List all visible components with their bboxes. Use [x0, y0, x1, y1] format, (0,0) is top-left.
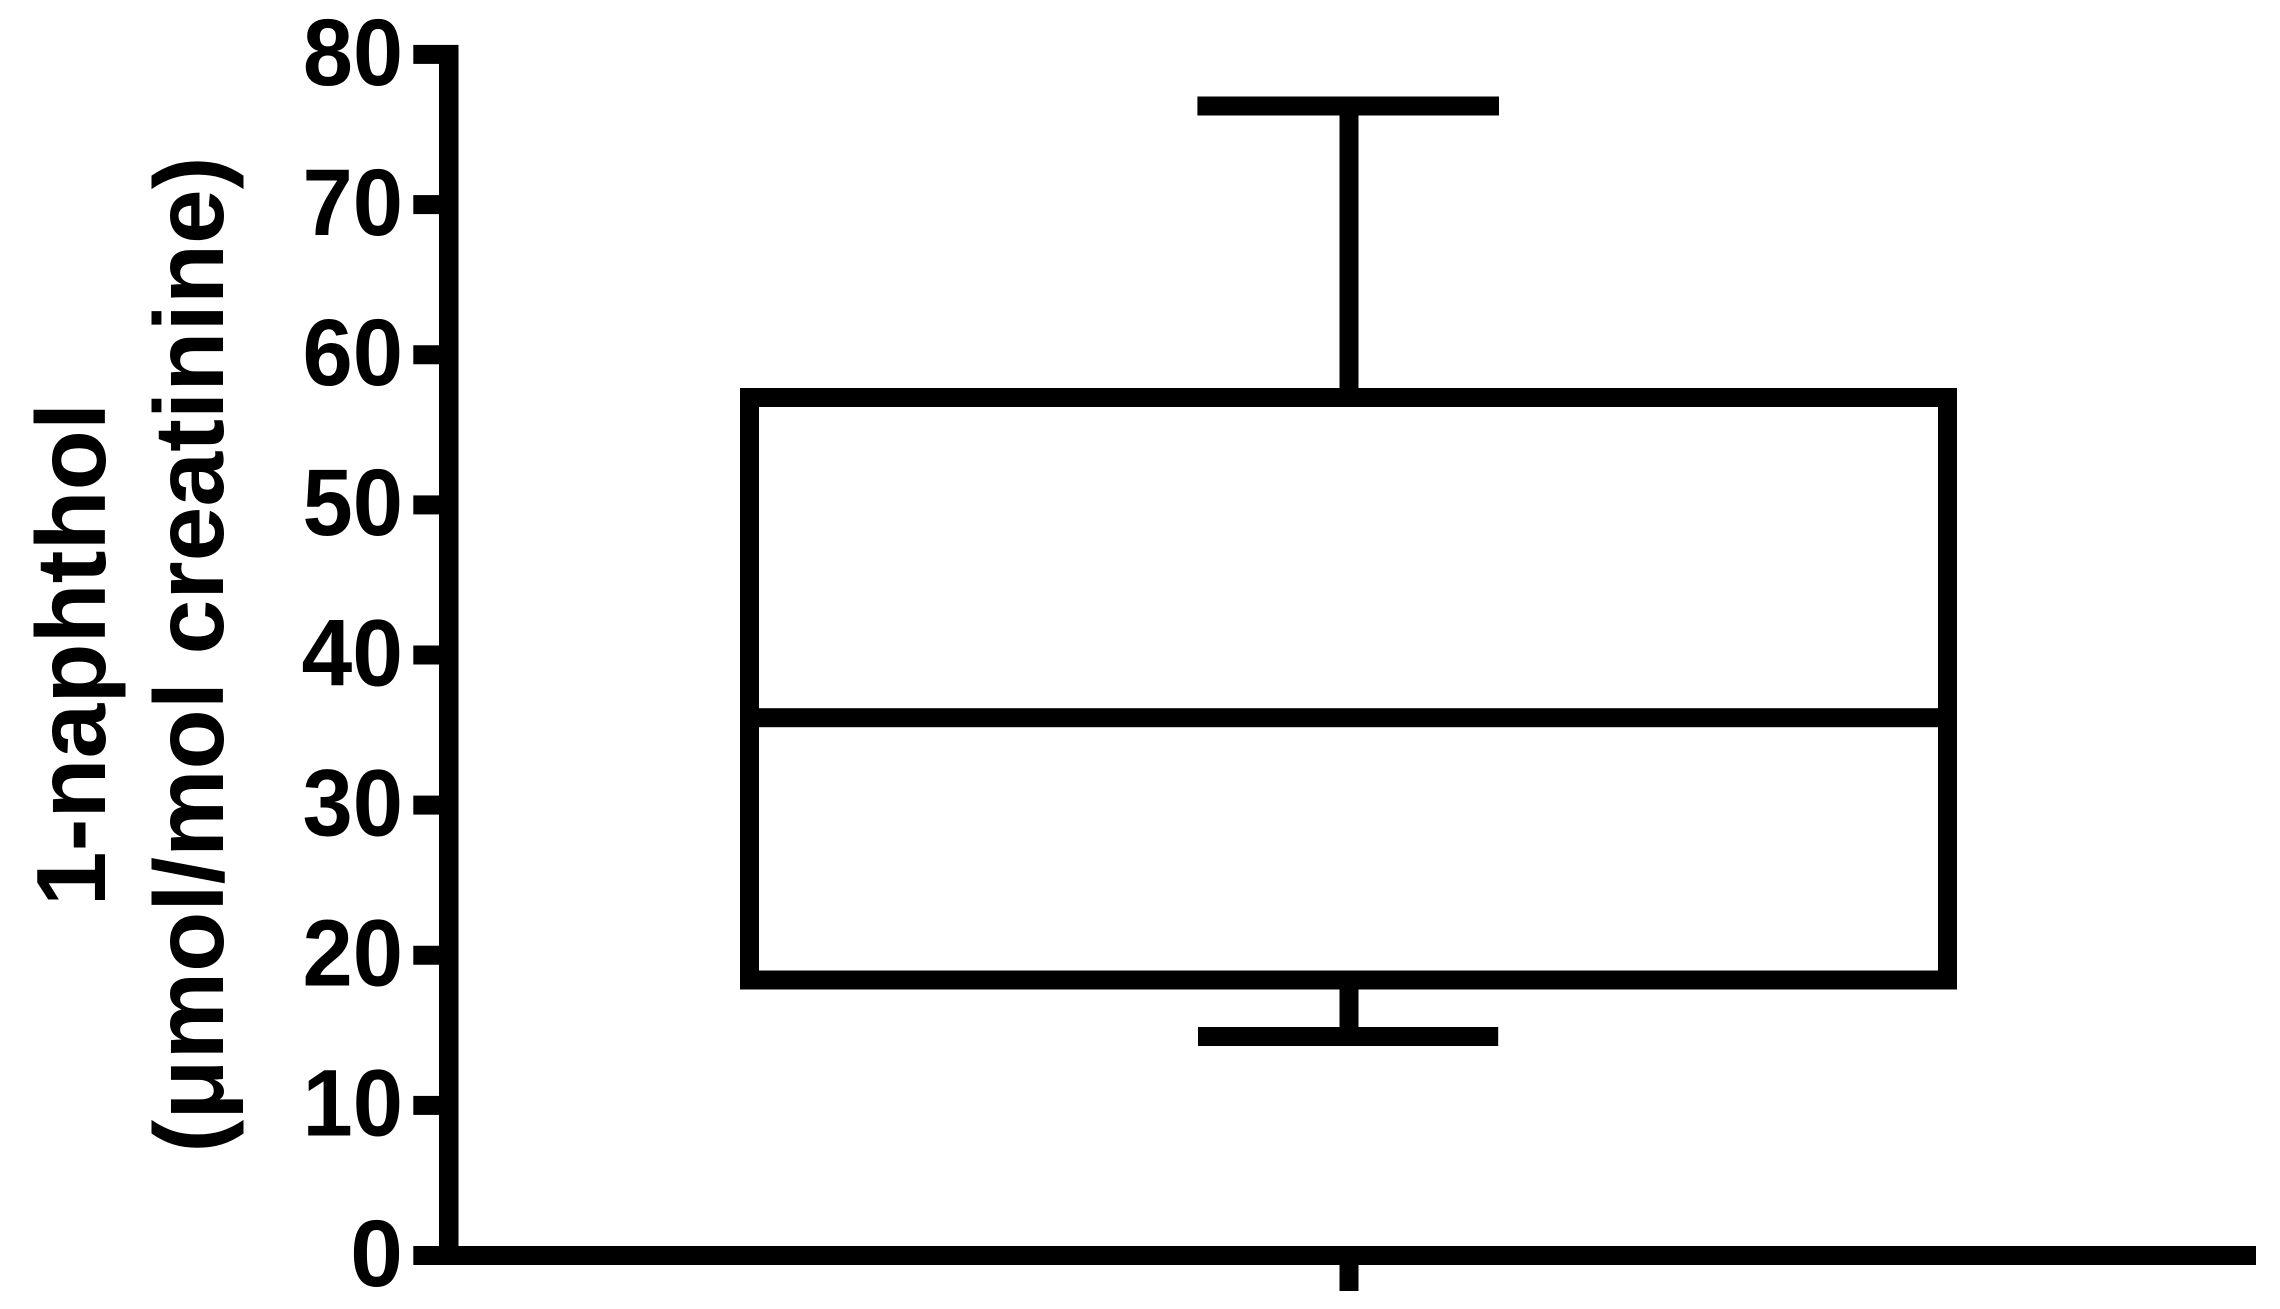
svg-text:10: 10: [303, 1051, 404, 1157]
y tick 70: [413, 195, 439, 214]
box outline: bottom edge (Q1 ~18): [740, 971, 1957, 990]
svg-text:80: 80: [303, 0, 403, 106]
y tick 10: [413, 1096, 439, 1115]
lower whisker cap (min ~14.5): [1198, 1027, 1498, 1046]
y tick 40: [413, 646, 439, 665]
y tick 80: [413, 45, 439, 64]
x-axis line: [413, 1246, 2256, 1265]
median line (~36): [740, 708, 1957, 727]
box outline: right edge: [1938, 388, 1957, 990]
box (IQR) outline: left edge: [740, 388, 759, 990]
y-axis line: [439, 45, 459, 1265]
y tick 30: [413, 796, 439, 815]
svg-text:20: 20: [303, 901, 404, 1007]
x category tick: [1340, 1265, 1359, 1291]
upper whisker cap (max ~76.5): [1197, 97, 1499, 116]
y tick 60: [413, 345, 439, 364]
svg-text:60: 60: [303, 300, 404, 406]
box outline: top edge (Q3 ~57): [740, 388, 1957, 407]
svg-text:(μmol/mol creatinine): (μmol/mol creatinine): [134, 156, 244, 1152]
svg-text:1-naphthol: 1-naphthol: [16, 403, 126, 906]
y tick 20: [413, 946, 439, 965]
upper whisker stem: [1340, 110, 1359, 400]
svg-text:30: 30: [303, 750, 404, 856]
svg-text:40: 40: [302, 600, 404, 706]
y tick 50: [413, 495, 439, 514]
lower whisker stem: [1340, 985, 1359, 1035]
svg-text:0: 0: [350, 1201, 403, 1307]
svg-text:70: 70: [303, 150, 404, 256]
svg-text:50: 50: [303, 450, 404, 556]
